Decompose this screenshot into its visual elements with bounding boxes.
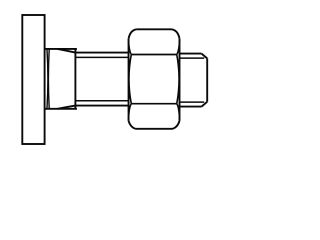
nut corner curve top-right (172, 29, 180, 38)
stub tip end face (206, 58, 208, 101)
nut facet line lower (131, 103, 176, 105)
nut facet line upper (131, 54, 176, 56)
nut corner curve bottom-left (129, 121, 136, 129)
stub thread crest bottom (180, 106, 202, 108)
nut chamfer arc left middle band (129, 55, 131, 104)
nut corner curve top-left (129, 29, 137, 38)
bolt head outline (side view) (45, 49, 77, 109)
plate (clamped part, side view) (22, 15, 44, 144)
shaft thread root line top (75, 56, 128, 58)
nut chamfer arc right bottom band (177, 104, 180, 121)
nut chamfer arc right top band (177, 39, 180, 55)
stub tip chamfer bottom (202, 102, 208, 107)
bolt head cone curve top right (58, 49, 76, 53)
nut chamfer arc left bottom band (129, 104, 132, 121)
nut chamfer arc right middle band (177, 55, 179, 104)
stub thread crest top (180, 53, 202, 55)
shaft thread crest line bottom (75, 105, 128, 107)
nut left edge (128, 39, 130, 121)
stub thread root top (180, 57, 205, 59)
stub thread root bottom (180, 101, 205, 103)
stub tip chamfer top (202, 54, 208, 59)
bolt head cone curve bottom right (58, 106, 76, 109)
nut corner curve bottom-right (173, 121, 180, 129)
nut right edge (179, 39, 181, 121)
nut bottom edge (136, 128, 173, 130)
bolt head chamfer arc left inner (47, 50, 50, 109)
nut top edge (137, 28, 172, 30)
nut chamfer arc left top band (129, 39, 132, 55)
shaft thread root line bottom (75, 100, 128, 102)
bolt head chamfer arc left outer (46, 50, 49, 109)
shaft thread crest line top (75, 52, 128, 54)
